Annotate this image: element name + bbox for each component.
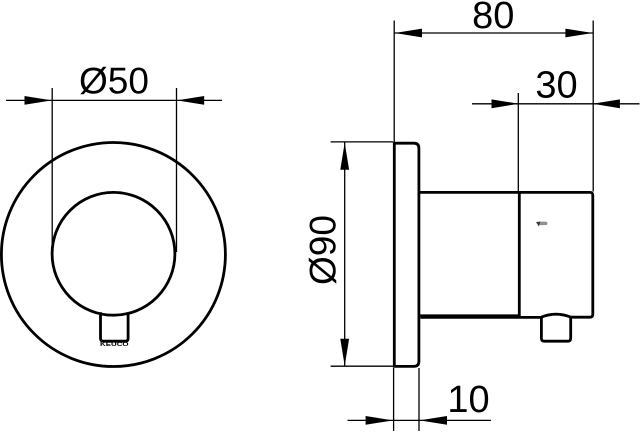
dimension 10 right arrow: [420, 416, 447, 425]
dimension Ø50 extension line left: [51, 88, 53, 252]
dimension Ø50 extension line right: [176, 88, 178, 252]
dimension 30 right arrow: [593, 99, 620, 108]
handle lever grey mark: [538, 222, 548, 226]
dimension 80 / 30 extension line right: [592, 21, 594, 192]
dimension 30 line: [472, 103, 640, 105]
dimension 10 line: [348, 419, 492, 421]
front view outer circle (wall plate Ø90): [1, 143, 225, 367]
side view body/handle boundary: [518, 191, 521, 317]
svg-text:KEUCO: KEUCO: [100, 342, 130, 348]
dimension Ø50 right arrow: [177, 96, 204, 105]
dimension 80 right arrow: [565, 29, 592, 38]
side view body bottom edge: [419, 314, 519, 317]
dimension 80 left arrow: [395, 29, 422, 38]
svg-text:Ø50: Ø50: [79, 61, 149, 102]
side view flange (wall plate): [394, 143, 419, 366]
dimension Ø90 extension line top: [331, 141, 393, 143]
dimension 10 extension line right: [418, 368, 420, 431]
dimension 10 left arrow: [366, 416, 393, 425]
svg-text:Ø90: Ø90: [303, 215, 344, 285]
dimension Ø90 line: [344, 143, 346, 367]
dimension Ø90 top arrow: [340, 143, 349, 170]
front view inner circle (handle Ø50): [52, 192, 175, 315]
front view handle tab outline: [101, 312, 129, 341]
handle lever mark arrowhead: [536, 222, 540, 227]
side view body top edge: [419, 191, 519, 194]
svg-text:10: 10: [447, 379, 489, 421]
side view tab outline: [541, 317, 570, 342]
dimension 10 extension line left: [393, 368, 395, 431]
side view tab top arc: [541, 314, 571, 317]
dimension Ø90 extension line bottom: [331, 365, 393, 367]
dimension Ø50 line: [6, 99, 222, 101]
dimension 30 left arrow: [492, 99, 519, 108]
dimension 30 extension line left: [517, 93, 519, 191]
dimension Ø90 bottom arrow: [340, 339, 349, 366]
svg-text:80: 80: [472, 0, 514, 37]
side view handle outline: [519, 192, 593, 317]
dimension Ø50 left arrow: [25, 96, 52, 105]
svg-text:30: 30: [535, 65, 577, 107]
dimension 80 extension line left: [393, 21, 395, 143]
dimension 80 line: [394, 32, 593, 34]
side view handle bottom edge left of tab: [421, 316, 542, 319]
